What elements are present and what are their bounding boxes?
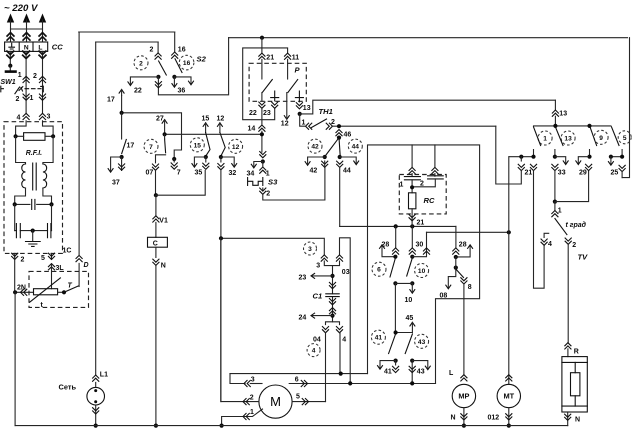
svg-text:12: 12: [232, 144, 240, 151]
svg-text:36: 36: [178, 88, 186, 95]
svg-text:43: 43: [417, 369, 425, 376]
svg-text:13: 13: [564, 136, 572, 143]
svg-text:S3: S3: [268, 178, 278, 187]
svg-text:N: N: [24, 45, 29, 52]
svg-text:41: 41: [384, 369, 392, 376]
svg-text:22: 22: [134, 88, 142, 95]
svg-text:22: 22: [249, 110, 257, 117]
svg-text:MP: MP: [458, 392, 469, 401]
svg-text:45: 45: [406, 315, 414, 322]
svg-text:23: 23: [263, 110, 271, 117]
svg-text:4: 4: [342, 337, 346, 344]
svg-text:TV: TV: [578, 253, 589, 262]
svg-text:MT: MT: [503, 392, 514, 401]
svg-text:13: 13: [303, 105, 311, 112]
svg-text:15: 15: [202, 116, 210, 123]
svg-text:012: 012: [488, 415, 500, 422]
svg-text:42: 42: [310, 168, 318, 175]
svg-text:16: 16: [183, 60, 191, 67]
svg-text:1C: 1C: [63, 248, 72, 255]
svg-text:1: 1: [30, 95, 34, 102]
svg-text:2N: 2N: [17, 285, 26, 292]
svg-text:C1: C1: [313, 292, 323, 301]
svg-text:24: 24: [299, 315, 307, 322]
svg-text:RC: RC: [424, 196, 435, 205]
svg-text:12: 12: [217, 116, 225, 123]
svg-text:1: 1: [302, 119, 306, 126]
svg-text:3: 3: [251, 377, 255, 384]
svg-text:2: 2: [139, 60, 143, 67]
svg-text:16: 16: [178, 47, 186, 54]
svg-text:30: 30: [416, 242, 424, 249]
svg-text:10: 10: [405, 297, 413, 304]
svg-text:32: 32: [229, 170, 237, 177]
svg-text:11: 11: [292, 55, 300, 62]
svg-text:N: N: [575, 417, 580, 424]
svg-text:8: 8: [468, 284, 472, 291]
svg-text:21: 21: [525, 170, 533, 177]
svg-text:Сеть: Сеть: [59, 383, 77, 392]
svg-text:1: 1: [266, 171, 270, 178]
svg-text:2: 2: [21, 257, 25, 264]
svg-text:25: 25: [611, 170, 619, 177]
svg-text:D: D: [84, 262, 89, 269]
svg-text:21: 21: [417, 220, 425, 227]
svg-text:2: 2: [150, 47, 154, 54]
svg-text:07: 07: [146, 170, 154, 177]
svg-text:46: 46: [344, 132, 352, 139]
svg-text:1: 1: [18, 72, 22, 79]
svg-text:V1: V1: [159, 218, 168, 225]
svg-text:2: 2: [420, 181, 424, 188]
svg-text:2: 2: [16, 96, 20, 103]
svg-text:6: 6: [295, 377, 299, 384]
svg-text:2: 2: [250, 395, 254, 402]
svg-text:L: L: [449, 370, 454, 377]
svg-text:4: 4: [312, 348, 316, 355]
svg-text:~ 220 V: ~ 220 V: [4, 3, 39, 14]
svg-text:5: 5: [623, 135, 627, 142]
svg-text:17: 17: [127, 143, 135, 150]
svg-text:TH1: TH1: [319, 107, 333, 116]
svg-text:43: 43: [418, 339, 426, 346]
svg-text:7: 7: [177, 170, 181, 177]
svg-text:1: 1: [543, 136, 547, 143]
svg-text:23: 23: [299, 275, 307, 282]
svg-text:21: 21: [266, 55, 274, 62]
svg-text:R: R: [574, 349, 579, 356]
svg-text:33: 33: [558, 170, 566, 177]
svg-text:R.F.I.: R.F.I.: [26, 150, 42, 157]
svg-text:17: 17: [107, 97, 115, 104]
svg-text:M: M: [270, 394, 281, 409]
svg-text:28: 28: [459, 242, 467, 249]
svg-text:N: N: [161, 263, 166, 270]
svg-text:2: 2: [572, 242, 576, 249]
svg-text:N: N: [451, 415, 456, 422]
svg-text:34: 34: [247, 171, 255, 178]
svg-text:44: 44: [343, 168, 351, 175]
svg-text:SW1: SW1: [1, 79, 16, 86]
svg-text:3: 3: [308, 246, 312, 253]
svg-text:CC: CC: [52, 43, 63, 52]
svg-text:1: 1: [250, 409, 254, 416]
svg-text:5: 5: [41, 255, 45, 262]
svg-text:12: 12: [281, 121, 289, 128]
svg-text:t град: t град: [566, 221, 587, 229]
svg-text:35: 35: [195, 170, 203, 177]
svg-text:L1: L1: [100, 372, 108, 379]
svg-text:15: 15: [194, 142, 202, 149]
svg-text:6: 6: [377, 267, 381, 274]
svg-text:10: 10: [418, 268, 426, 275]
svg-text:41: 41: [375, 335, 383, 342]
svg-text:7: 7: [149, 144, 153, 151]
svg-text:S2: S2: [197, 55, 207, 64]
svg-text:3: 3: [47, 114, 51, 121]
svg-text:37: 37: [112, 180, 120, 187]
svg-text:14: 14: [248, 126, 256, 133]
svg-text:29: 29: [579, 170, 587, 177]
svg-text:44: 44: [352, 144, 360, 151]
svg-text:4: 4: [548, 241, 552, 248]
svg-text:03: 03: [342, 269, 350, 276]
svg-text:08: 08: [440, 293, 448, 300]
svg-text:5: 5: [296, 394, 300, 401]
svg-text:04: 04: [313, 337, 321, 344]
svg-text:9: 9: [599, 135, 603, 142]
svg-text:2: 2: [33, 73, 37, 80]
svg-text:42: 42: [311, 144, 319, 151]
svg-text:4: 4: [17, 115, 21, 122]
svg-text:1: 1: [400, 182, 404, 189]
svg-text:13: 13: [559, 111, 567, 118]
svg-text:2: 2: [266, 191, 270, 198]
svg-text:C: C: [153, 241, 158, 248]
svg-text:3: 3: [316, 263, 320, 270]
